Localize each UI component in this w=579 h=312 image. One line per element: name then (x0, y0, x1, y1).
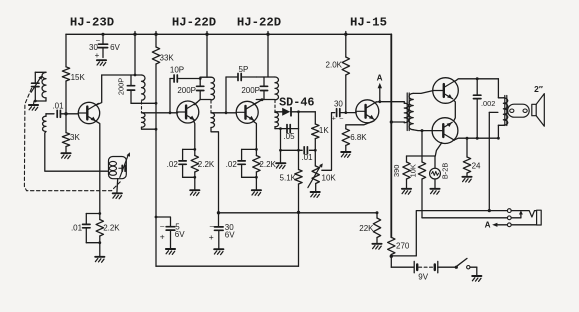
jack contact ring 3 (507, 223, 511, 227)
label minus (C15) (210, 221, 215, 230)
junction Q4 base node (344, 111, 347, 114)
wire jack sleeve (511, 224, 536, 226)
label 30 (C15) (225, 223, 234, 232)
svg-text:HJ-22D: HJ-22D (237, 16, 281, 30)
wire wiper to C14 (322, 113, 335, 171)
wire battery jog bar (391, 255, 416, 257)
capacitor C16 .002 (474, 79, 481, 138)
label 2.2K (R6) (259, 160, 276, 169)
IF transformer IFT3 primary coil (275, 77, 279, 100)
label 1K (319, 126, 329, 135)
wire RC1 top bar (86, 214, 100, 225)
transistor Q4 driver (356, 100, 379, 123)
capacitor C10 200P IFT3 (260, 77, 267, 100)
wire bias bar (407, 155, 436, 157)
label 10K rotated (408, 164, 417, 177)
label 30 (C14) (334, 99, 343, 108)
wire Q2 collector lead (195, 100, 201, 105)
transistor Q5 output upper (433, 78, 459, 104)
resistor R12 22K (373, 211, 380, 243)
wire C11 bottom (241, 164, 243, 177)
label minus (C2) (96, 37, 100, 44)
IFT2 core dashed link (210, 101, 212, 113)
jack contact arrow (519, 210, 523, 217)
label plus (C15) (209, 232, 214, 242)
wire VC1 bottom bar (34, 100, 46, 103)
wire IFT1 riser from bus (134, 34, 136, 75)
IF transformer IFT2 primary coil (211, 77, 215, 100)
svg-text:6V: 6V (110, 43, 120, 52)
jack tip contact V (511, 211, 536, 217)
ground RC2 (190, 190, 199, 195)
jack contact ring 1 (507, 209, 511, 213)
svg-text:A: A (377, 74, 383, 83)
junction emitter RC top (98, 212, 101, 215)
wire Q3 base line (211, 112, 236, 114)
transistor Q2 1st IF (177, 101, 199, 123)
wire detector cap rail (275, 128, 299, 130)
IF transformer IFT3 secondary coil (275, 112, 279, 126)
svg-text:6V: 6V (175, 230, 185, 239)
wire T2 sec top to Q5 base (413, 91, 433, 94)
wire Q5 emitter to Q6 (454, 100, 456, 121)
svg-text:.05: .05 (283, 132, 295, 141)
wire C1 to Q1 base (60, 113, 78, 115)
junction IFT1 bar (134, 74, 137, 77)
ground lamp (430, 189, 439, 194)
svg-text:–: – (96, 37, 100, 44)
junction bus/33K riser (154, 32, 157, 37)
capacitor C6 10P (170, 75, 200, 82)
junction bus/IFT2 riser (205, 32, 208, 37)
wire AGC drop to ground (280, 129, 282, 163)
svg-text:10K: 10K (408, 164, 417, 177)
T3 core lines (505, 96, 507, 126)
wire C8 bottom (182, 164, 184, 177)
label 6.8K (350, 133, 367, 142)
label SD-46 (279, 96, 314, 110)
ground oscillator (113, 193, 122, 198)
label A (test point) (377, 74, 383, 83)
T3 secondary / voice coil loop (508, 104, 530, 117)
junction bus/2.0K riser (344, 32, 347, 37)
speaker SP 2 inch (532, 94, 545, 127)
label 2.0K (326, 60, 343, 69)
wire left bias line (65, 34, 67, 67)
wire osc box to ground (116, 179, 119, 193)
wire RC2 top bar (183, 148, 197, 161)
svg-text:A: A (485, 220, 491, 229)
svg-text:200P: 200P (241, 86, 260, 95)
svg-text:HJ-22D: HJ-22D (172, 16, 216, 30)
label plus (C2) (95, 51, 100, 60)
wire bias riser (421, 131, 423, 156)
ground R13 (402, 189, 411, 194)
wire Q5 collector (455, 79, 499, 82)
ground R2 (61, 153, 70, 158)
resistor R4 33K (152, 34, 159, 266)
wire Q1 collector riser (96, 75, 102, 105)
resistor R5 2.2K stage2 (191, 149, 198, 177)
svg-text:.01: .01 (52, 102, 64, 111)
diode D1 SD-46 (282, 108, 291, 116)
svg-text:22K: 22K (359, 224, 374, 233)
ground RC1 (95, 257, 104, 262)
svg-text:2.2K: 2.2K (259, 160, 276, 169)
wire Q2 emitter line (194, 121, 195, 150)
IF transformer IFT1 primary coil (142, 75, 145, 100)
IF transformer IFT2 secondary coil (211, 113, 215, 128)
svg-text:.02: .02 (226, 160, 238, 169)
svg-text:+: + (160, 232, 165, 242)
ground R10 (341, 152, 350, 157)
junction det/.01 rail (297, 149, 300, 152)
wire Q4 emitter to 6.8K (346, 121, 374, 129)
junction B+/T2 primary (390, 120, 393, 123)
label 10P (170, 65, 184, 74)
test point A arrow (378, 83, 382, 103)
ground VC1 (29, 101, 38, 110)
resistor R9 2.0K (342, 34, 349, 112)
wire Q1 emitter line (95, 121, 100, 214)
label .01 (C4) (71, 224, 83, 233)
antenna coil L1 primary (42, 72, 46, 101)
driver transformer T2 primary (391, 102, 408, 123)
wire jack line 2 (422, 217, 521, 219)
wire 270 to battery (391, 255, 413, 268)
label .02 (C11) (226, 160, 238, 169)
svg-text:270: 270 (396, 242, 410, 251)
wire Q6 emitter to lamp (435, 143, 442, 156)
junction bus/C2 stub (101, 33, 104, 36)
resistor R8 1K (312, 124, 319, 139)
junction bus/IFT1 riser (133, 32, 136, 37)
wire C14 to Q4 base (340, 112, 356, 114)
label .01 (C1) (52, 102, 64, 111)
capacitor C9 5P (226, 74, 256, 81)
label 6V (C15) (225, 230, 235, 239)
svg-text:+: + (95, 51, 100, 60)
wire IFT3 secondary to detector rail (274, 127, 276, 129)
wire 5/6V branch (155, 216, 171, 227)
wire 3K to ground (65, 147, 67, 153)
wire .01 rail (281, 149, 316, 151)
junction bus/IFT3 riser (266, 32, 269, 37)
capacitor C1 .01 (57, 110, 60, 117)
label 2 inch (534, 84, 543, 94)
label 24 (472, 162, 481, 171)
battery B1 9V (414, 261, 455, 272)
switch S1 (455, 258, 477, 275)
svg-text:15K: 15K (71, 73, 86, 82)
label minus (C5) (160, 222, 165, 231)
svg-text:3K: 3K (70, 133, 80, 142)
ground C15 (214, 249, 223, 254)
svg-text:.02: .02 (167, 160, 179, 169)
label HJ-22D (2nd IF) (172, 16, 216, 30)
capacitor C7 200P IFT2 (197, 79, 204, 100)
wire pot to ground (315, 184, 317, 192)
potentiometer VR 10K volume (308, 163, 323, 187)
wire 10P riser (169, 79, 172, 115)
svg-text:6V: 6V (225, 230, 235, 239)
label 15K (71, 73, 86, 82)
wire IFT3 riser (267, 34, 269, 77)
wire mid bus (219, 212, 378, 214)
wire IFT2 top bar (200, 77, 211, 78)
svg-text:33K: 33K (160, 53, 175, 62)
ground C5 (166, 249, 175, 254)
wire VC1 top bar (35, 71, 46, 73)
capacitor C2 30uF 6V top (98, 34, 107, 57)
IFT1 core dashed link (141, 102, 143, 113)
antenna tuning capacitor VC1 (31, 72, 42, 101)
resistor R14 10K bias (418, 156, 425, 218)
dashed tuning gang link (24, 89, 120, 191)
jack contact ring 2 (507, 216, 511, 220)
wire IFT2 secondary bottom jog (211, 128, 219, 213)
capacitor C5 5uF 6V (166, 227, 175, 249)
svg-text:10P: 10P (170, 65, 184, 74)
IF transformer IFT1 secondary coil (142, 113, 146, 127)
label .05 (C12) (283, 132, 295, 141)
junction detector node (297, 110, 300, 113)
ground R12 (372, 244, 381, 249)
transistor Q3 2nd IF (236, 101, 258, 123)
wire IFT3 top bar (256, 76, 275, 78)
svg-text:2.0K: 2.0K (326, 60, 343, 69)
label 270 (396, 242, 410, 251)
svg-text:HJ-15: HJ-15 (350, 16, 387, 30)
label plus (C5) (160, 232, 165, 242)
resistor R6 2.2K stage3 (253, 149, 260, 177)
junction .05/AGC (279, 127, 282, 130)
label 33K (160, 53, 175, 62)
resistor R3 2.2K emitter (96, 214, 103, 243)
capacitor C15 30uF 6V (215, 213, 224, 249)
wire C4 to bottom bar (85, 228, 87, 243)
label 5P (239, 65, 249, 74)
resistor R13 390 (403, 156, 410, 188)
resistor R10 6.8K (342, 129, 349, 152)
svg-text:30: 30 (334, 99, 343, 108)
label 9V (418, 272, 428, 281)
capacitor C4 .01 emitter (83, 224, 90, 227)
junction bias node (421, 129, 424, 132)
svg-text:200P: 200P (116, 78, 125, 95)
label 200P (IFT1) rotated (116, 78, 125, 95)
svg-text:5P: 5P (239, 65, 249, 74)
label 200P (IFT2) (177, 86, 196, 95)
svg-text:5.1K: 5.1K (280, 173, 297, 182)
wire Q3 emitter line (253, 121, 256, 149)
label 6V (C2) (110, 43, 120, 52)
label 30 (C2) (89, 43, 98, 52)
svg-text:9V: 9V (418, 272, 428, 281)
junction 10P/IFT2 top (199, 77, 202, 80)
wire secondary top to C1 (46, 113, 54, 115)
svg-text:10K: 10K (322, 173, 337, 182)
capacitor C8 .02 stage2 (179, 161, 186, 164)
label 200P (IFT3) (241, 86, 260, 95)
svg-text:200P: 200P (177, 86, 196, 95)
transistor Q6 output lower (432, 118, 458, 144)
wire RC3 bottom bar (242, 176, 258, 190)
svg-text:+: + (209, 232, 214, 242)
T2 core lines (407, 93, 409, 131)
svg-text:2.2K: 2.2K (198, 160, 215, 169)
wire 5P riser (225, 77, 228, 114)
IFT3 core dashed link (274, 100, 276, 112)
resistor R15 24 (463, 137, 470, 177)
wire 1K corner (314, 112, 316, 124)
jack body (537, 210, 542, 225)
svg-text:B-2B: B-2B (440, 163, 449, 180)
label 2.2K (R5) (198, 160, 215, 169)
svg-text:2″: 2″ (534, 84, 543, 94)
ground C2 (97, 60, 106, 65)
wire RC2 bottom bar (183, 176, 197, 190)
svg-text:–: – (160, 222, 165, 231)
label HJ-15 (350, 16, 387, 30)
wire Q3 collector lead (254, 98, 264, 104)
wire detector node drop (298, 112, 300, 170)
label 5.1K (280, 173, 297, 182)
wire A arrow line (492, 223, 507, 227)
wire Q6 collector (454, 138, 499, 140)
svg-text:6.8K: 6.8K (350, 133, 367, 142)
transistor Q1 converter (78, 102, 99, 123)
svg-text:390: 390 (392, 165, 401, 177)
label 2.2K (R3) (103, 224, 120, 233)
wire IFT3 sec top to diode (275, 111, 282, 114)
junction mid bus/5.1K line (297, 211, 300, 214)
wire IFT3 bottom bar (256, 99, 275, 101)
wire 1K to pot (314, 139, 317, 166)
label A (output) (485, 220, 491, 229)
wire bottom return line (156, 265, 299, 267)
wire B+ vertical line (390, 34, 392, 237)
resistor R1 15K (62, 67, 69, 81)
oscillator coil L2 (109, 161, 116, 175)
wire IFT1 primary bottom bar (131, 102, 157, 105)
wire IFT2 riser (206, 34, 208, 77)
label minus (C14) (340, 115, 344, 122)
ground R15 (462, 177, 471, 182)
label 22K (359, 224, 374, 233)
wire RC3 top bar (242, 148, 258, 161)
junction C16 top (476, 77, 479, 80)
label HJ-23D (70, 16, 114, 30)
svg-text:HJ-23D: HJ-23D (70, 16, 114, 30)
wire IFT1 top bar (102, 74, 142, 76)
wire 15K to base node (65, 81, 67, 133)
wire Q2 base line (142, 112, 178, 114)
label plus (C14) (332, 115, 336, 122)
svg-text:SD-46: SD-46 (279, 96, 314, 110)
capacitor C12 .05 (287, 125, 290, 133)
capacitor C3 200P IFT1 (127, 75, 134, 103)
capacitor C13 .01 (304, 147, 307, 154)
label .01 (C13) (301, 153, 313, 162)
oscillator trimmer capacitor (119, 152, 130, 177)
ground S1 (472, 276, 481, 281)
wire IFT2 bottom bar (200, 99, 211, 101)
oscillator coil box T1 (109, 157, 127, 179)
label 5 (C5) (175, 222, 180, 231)
svg-text:.01: .01 (301, 153, 313, 162)
oscillator feedback wire (45, 132, 108, 172)
wire diode out (291, 111, 316, 113)
resistor R11 270 (388, 237, 395, 254)
label .002 (481, 99, 495, 108)
svg-text:24: 24 (472, 162, 481, 171)
label 3K (70, 133, 80, 142)
junction C16 bottom (476, 137, 479, 140)
lamp B-2B (430, 156, 441, 188)
wire Q4 collector (375, 101, 405, 104)
wire IFT1 secondary bottom jog (142, 127, 158, 130)
svg-text:–: – (210, 221, 215, 230)
svg-text:1K: 1K (319, 126, 329, 135)
wire jack line 1 (416, 211, 507, 256)
svg-text:.01: .01 (71, 224, 83, 233)
junction battery takeoff (390, 255, 393, 258)
svg-text:–: – (340, 115, 344, 122)
label 390 rotated (392, 165, 401, 177)
ground RC3 (252, 190, 261, 195)
svg-text:.002: .002 (481, 99, 495, 108)
capacitor C14 30uF coupling (337, 109, 340, 117)
antenna coil L1 secondary (42, 114, 46, 132)
wire RC1 bottom bar (86, 241, 101, 256)
label 10K (VR) (322, 173, 337, 182)
output transformer T3 primary (497, 79, 508, 140)
junction mid bus/30-6V (217, 211, 220, 214)
junction AGC/.01 rail (279, 149, 282, 152)
ground VR (311, 192, 320, 197)
wire T3 tap to jack (488, 112, 498, 212)
wire T2 sec bottom to Q6 base (413, 129, 433, 132)
resistor R2 3K (62, 133, 69, 147)
svg-text:+: + (332, 115, 336, 122)
label 6V (C5) (175, 230, 185, 239)
svg-text:2.2K: 2.2K (103, 224, 120, 233)
junction base node (64, 112, 67, 115)
resistor R7 5.1K (295, 170, 302, 267)
driver transformer T2 secondary (409, 93, 413, 129)
wire top supply bus (66, 33, 391, 35)
label HJ-22D (3rd IF) (237, 16, 281, 30)
ground detector (276, 163, 285, 168)
label .02 (C8) (167, 160, 179, 169)
label B-2B rotated (440, 163, 449, 180)
capacitor C11 .02 stage3 (238, 161, 245, 164)
